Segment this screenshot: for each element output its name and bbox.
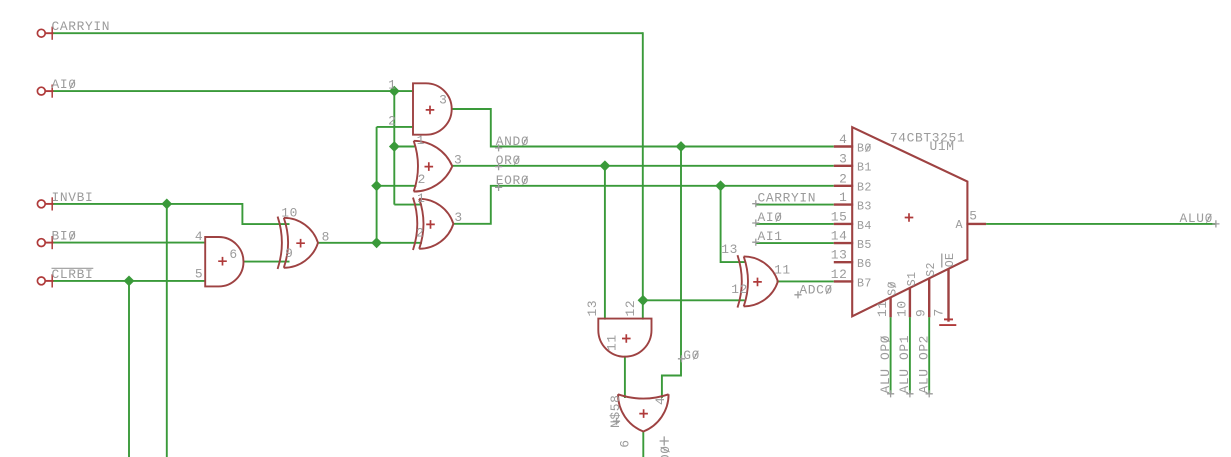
svg-text:CARRYIN: CARRYIN [758, 191, 817, 206]
wire CARRYIN stub to mux pin B3 [756, 204, 834, 206]
wire EOR0 from XOR g3 output to mux pin B2 [453, 186, 834, 224]
wire AI1 stub to mux pin B5 [756, 242, 834, 244]
svg-text:U1M: U1M [930, 139, 955, 154]
wire AND0 from AND g1 output to mux pin B0 [451, 109, 834, 147]
svg-text:B4: B4 [857, 219, 872, 233]
svg-text:2: 2 [388, 114, 396, 129]
svg-text:8: 8 [322, 230, 330, 245]
svg-text:ALU0: ALU0 [1180, 211, 1213, 226]
svg-text:4: 4 [195, 229, 203, 244]
mux pin B7 (pin 12) [834, 280, 853, 282]
cross AND g1 origin [426, 106, 435, 115]
mux select pin S2 (pin 9) with net ALU OP2 [928, 278, 930, 317]
svg-text:1: 1 [388, 77, 396, 92]
wire ALU0 from mux output A [986, 223, 1216, 225]
mux pin B3 (pin 1) [834, 203, 853, 205]
AND gate pins 1,2,3 [413, 83, 452, 134]
svg-text:13: 13 [721, 242, 738, 257]
svg-text:13: 13 [585, 300, 600, 317]
wire B-operand from XOR g4 output to XOR g3 input 2 [318, 242, 422, 244]
svg-text:14: 14 [831, 229, 848, 244]
cross AND g5 origin [218, 257, 227, 266]
mux pin B0 (pin 4) [834, 145, 853, 147]
svg-text:6: 6 [618, 439, 633, 447]
svg-text:9: 9 [914, 309, 929, 317]
svg-text:4: 4 [839, 132, 847, 147]
svg-text:AI1: AI1 [758, 229, 783, 244]
junction AI0 branch / OR input [389, 141, 400, 152]
cross OR g9 origin [639, 409, 648, 418]
svg-text:OR0: OR0 [496, 153, 521, 168]
svg-text:10: 10 [281, 205, 298, 220]
mux pin OE (pin 7) with overline [947, 269, 949, 322]
svg-text:6: 6 [229, 247, 237, 262]
XOR gate pins 1,2,3 [413, 198, 453, 250]
svg-text:2: 2 [839, 171, 847, 186]
svg-text:5: 5 [969, 208, 977, 223]
svg-text:2: 2 [416, 226, 424, 241]
input pin AI0 [37, 87, 45, 95]
wire AND g8 output down to OR g9 input [624, 356, 626, 398]
XOR gate pins 13,12,11 [738, 255, 778, 307]
svg-text:12: 12 [623, 300, 638, 317]
junction EOR0 branch [715, 180, 726, 191]
cross XOR g7 origin [753, 278, 762, 287]
wire carry-out from OR g9 output to bottom edge [642, 431, 644, 457]
mux pin B4 (pin 15) [834, 223, 853, 225]
junction AI0 / AND1 input [389, 86, 400, 97]
svg-text:3: 3 [454, 152, 462, 167]
svg-text:11: 11 [774, 263, 791, 278]
svg-text:ALU OP1: ALU OP1 [897, 335, 912, 394]
junction AND0 / G0 [676, 141, 687, 152]
svg-text:B0: B0 [857, 141, 872, 155]
cross OR g2 origin [425, 162, 434, 171]
svg-text:3: 3 [439, 92, 447, 107]
svg-text:11: 11 [605, 334, 620, 351]
svg-text:5: 5 [195, 267, 203, 282]
svg-text:15: 15 [831, 209, 848, 224]
svg-text:B7: B7 [857, 276, 872, 290]
wire INVBI horizontal [52, 204, 289, 224]
wire CARRYIN vertical down to AND gate U3 pin 12 [642, 32, 644, 319]
AND gate pins 13,12,11 rotated down [598, 319, 651, 357]
wire AI0 stub to mux pin B4 [756, 223, 834, 225]
input pin CARRYIN [37, 29, 45, 37]
svg-text:9: 9 [285, 246, 293, 261]
svg-text:4: 4 [653, 397, 668, 405]
svg-text:AI0: AI0 [758, 210, 783, 225]
svg-text:3: 3 [839, 151, 847, 166]
wire B-operand vertical branch up [376, 127, 378, 243]
svg-text:10: 10 [894, 300, 909, 317]
svg-text:B6: B6 [857, 257, 872, 271]
mux select pin S1 (pin 10) with net ALU OP1 [909, 288, 911, 317]
wire AI0 horizontal [52, 90, 414, 92]
svg-text:11: 11 [875, 300, 890, 317]
junction INVBI [161, 199, 172, 210]
mux pin B5 (pin 14) [834, 242, 853, 244]
svg-text:S0: S0 [886, 281, 900, 296]
cross mux origin [905, 213, 914, 222]
svg-text:13: 13 [831, 248, 848, 263]
mux pin B2 (pin 2) [834, 185, 853, 187]
wire INVBI vertical to bottom edge [166, 204, 168, 457]
cross AND g8 origin [622, 334, 631, 343]
wire AI0 branch to OR gate input 1 [394, 146, 414, 148]
svg-text:ALU OP0: ALU OP0 [878, 335, 893, 394]
XOR gate pins 10,9,8 [278, 217, 318, 269]
svg-text:OE: OE [943, 253, 957, 268]
wire branch to AND g1 input 2 [377, 126, 414, 128]
svg-text:INVBI: INVBI [52, 190, 94, 205]
junction OR0 branch [600, 160, 611, 171]
AND gate pins 4,5,6 [205, 237, 243, 286]
junction B-operand [371, 237, 382, 248]
svg-text:S1: S1 [905, 272, 919, 287]
cross XOR g4 origin [296, 239, 305, 248]
svg-text:A: A [955, 218, 963, 232]
svg-text:AND0: AND0 [496, 134, 529, 149]
wire AND g5 output to XOR g4 input 9 [244, 261, 290, 263]
cross XOR g3 origin [426, 220, 435, 229]
input pin CLRBI [37, 277, 45, 285]
wire AI0 vertical branch down [393, 91, 395, 205]
wire OR0 branch down to AND g8 input 13 [604, 166, 606, 320]
svg-text:CLRBI: CLRBI [52, 267, 94, 282]
svg-text:7: 7 [932, 308, 947, 316]
svg-text:1: 1 [417, 191, 425, 206]
svg-text:EOR0: EOR0 [496, 173, 529, 188]
svg-text:1: 1 [839, 190, 847, 205]
junction CARRYIN / XOR12 [638, 295, 649, 306]
svg-text:CARRYIN: CARRYIN [52, 19, 111, 34]
input pin INVBI [37, 200, 45, 208]
input pin BI0 [37, 239, 45, 247]
wire OR0 from OR g2 output to mux pin B1 [452, 165, 834, 167]
mux output pin A (pin 5) [966, 223, 986, 225]
svg-text:ALU OP2: ALU OP2 [916, 335, 931, 394]
wire AI0 branch to XOR gate input 1 [394, 204, 422, 206]
mux select pin S0 (pin 11) with net ALU OP0 [889, 297, 891, 317]
wire CLRBI horizontal [52, 280, 206, 282]
wire CARRYIN horizontal from input pin [52, 32, 643, 34]
svg-text:12: 12 [731, 282, 748, 297]
svg-text:G0: G0 [683, 348, 700, 363]
ground symbol on OE [944, 318, 953, 320]
svg-text:12: 12 [831, 267, 848, 282]
svg-text:B2: B2 [857, 181, 872, 195]
svg-text:B1: B1 [857, 161, 872, 175]
OR gate rotated down [618, 394, 669, 431]
mux pin B6 (pin 13) [834, 261, 853, 263]
svg-text:ADC0: ADC0 [799, 283, 832, 298]
net G0 vertical wire down to OR gate [662, 147, 681, 399]
OR gate pins 1,2,3 [414, 141, 453, 192]
svg-text:CO0: CO0 [658, 445, 673, 457]
svg-text:3: 3 [454, 210, 462, 225]
junction CLRBI [124, 276, 135, 287]
svg-text:2: 2 [418, 172, 426, 187]
svg-text:N$58: N$58 [608, 395, 623, 428]
svg-text:B5: B5 [857, 238, 872, 252]
wire CLRBI vertical to bottom edge [128, 281, 130, 457]
wire branch to OR g2 input 2 [377, 185, 417, 187]
wire ADC0 from XOR g7 output to mux pin B7 [777, 280, 834, 282]
wire CARRYIN branch to XOR pin 12 [643, 299, 745, 301]
svg-text:1: 1 [417, 133, 425, 148]
mux pin B1 (pin 3) [834, 165, 853, 167]
wire BI0 horizontal [52, 242, 206, 244]
svg-text:S2: S2 [924, 262, 938, 277]
svg-text:BI0: BI0 [52, 229, 77, 244]
wire EOR0 branch down to XOR g7 input 13 [721, 186, 745, 262]
multiplexer U1M 74CBT3251 body [852, 127, 967, 316]
junction OR g2 input 2 [371, 180, 382, 191]
svg-text:B3: B3 [857, 200, 872, 214]
svg-text:AI0: AI0 [52, 77, 77, 92]
